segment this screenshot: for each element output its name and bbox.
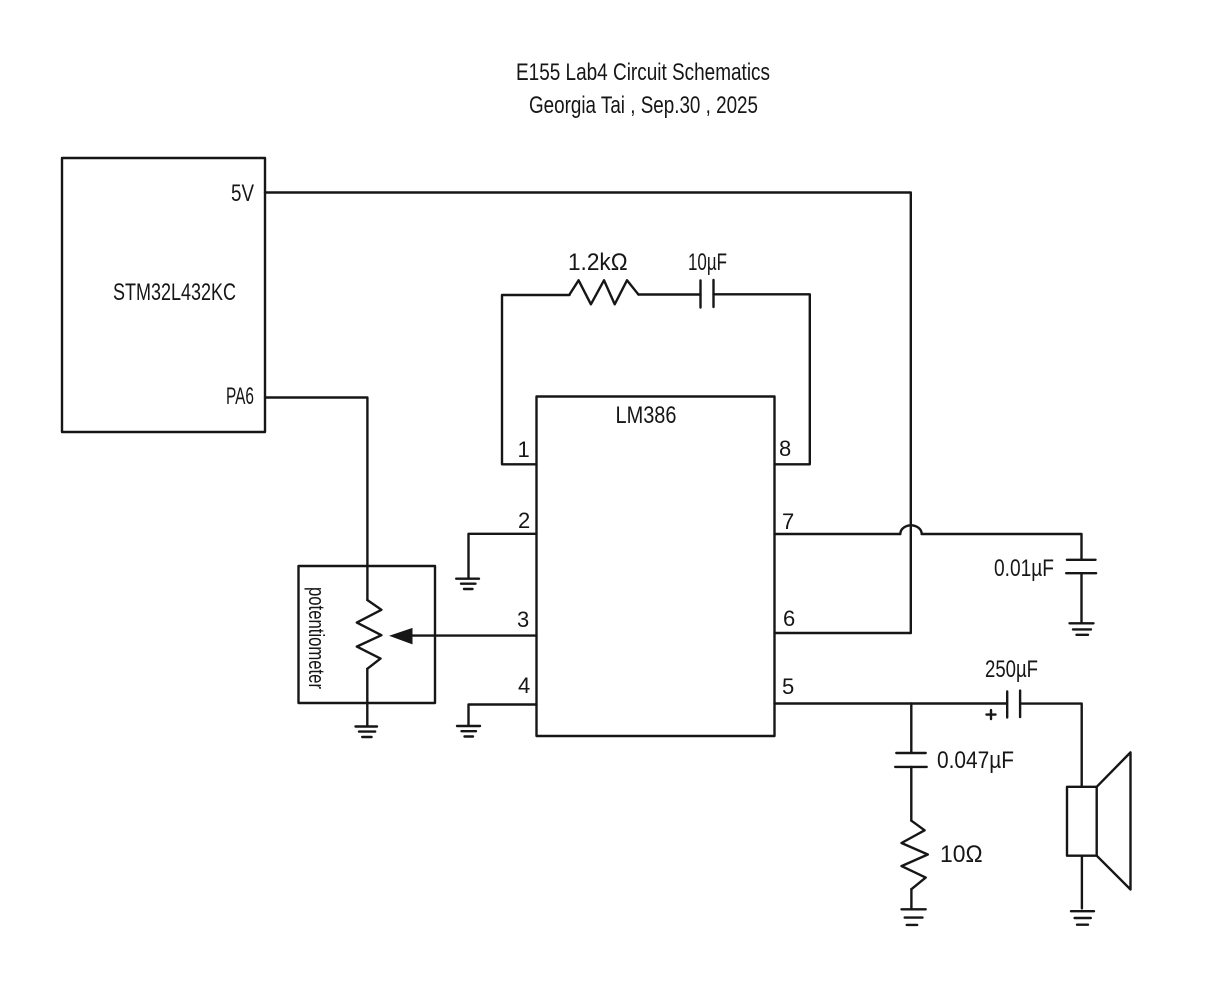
svg-text:250µF: 250µF (985, 656, 1038, 683)
svg-text:E155 Lab4 Circuit Schematics: E155 Lab4 Circuit Schematics (516, 59, 770, 86)
wire capacitor to ground (1080, 573, 1082, 623)
svg-text:4: 4 (518, 673, 530, 698)
svg-text:10Ω: 10Ω (940, 841, 983, 868)
resistor R1 1.2kΩ (570, 280, 639, 304)
capacitor C1 10µF left plate (699, 281, 701, 308)
svg-text:3: 3 (517, 607, 529, 632)
wire pin 6 (775, 632, 911, 634)
svg-text:6: 6 (783, 606, 795, 631)
wire junction down to 0.047µF (910, 704, 912, 753)
wire pin 4 to ground (469, 705, 537, 726)
capacitor C3 0.047µF top plate (896, 752, 925, 754)
wire capacitor to speaker (1020, 704, 1082, 787)
svg-text:7: 7 (782, 509, 794, 534)
wire pin 7 (775, 533, 901, 535)
svg-text:LM386: LM386 (616, 402, 677, 429)
ground pin 2 (456, 579, 479, 589)
wire PA6 to potentiometer (265, 398, 367, 601)
svg-text:1: 1 (518, 437, 530, 462)
svg-text:10µF: 10µF (688, 249, 727, 276)
wire potentiometer to ground (366, 669, 368, 726)
wire hop to 0.01µF capacitor (922, 534, 1082, 560)
capacitor C4 250µF left plate (1006, 692, 1008, 718)
wire resistor to ground (910, 889, 912, 908)
svg-text:PA6: PA6 (226, 383, 254, 410)
ground 10Ω (902, 909, 926, 925)
ground speaker (1071, 911, 1094, 925)
svg-text:0.047µF: 0.047µF (937, 747, 1014, 774)
potentiometer resistor zigzag (357, 600, 382, 669)
wire pin 2 to ground (469, 534, 537, 579)
svg-text:2: 2 (518, 508, 530, 533)
wire pin 5 to 250µF capacitor (775, 702, 1008, 704)
speaker horn (1097, 752, 1131, 889)
wire resistor to capacitor (638, 293, 700, 295)
capacitor C2 0.01µF top plate (1067, 559, 1096, 561)
svg-text:5: 5 (782, 674, 794, 699)
svg-text:5V: 5V (231, 180, 254, 207)
svg-text:STM32L432KC: STM32L432KC (113, 279, 236, 306)
svg-text:1.2kΩ: 1.2kΩ (568, 249, 628, 276)
svg-text:potentiometer: potentiometer (304, 587, 329, 689)
capacitor C2 0.01µF bottom plate (1066, 572, 1096, 574)
svg-text:0.01µF: 0.01µF (994, 555, 1054, 582)
IC U2 STM32L432KC box (62, 158, 265, 432)
resistor R2 10Ω (902, 821, 928, 890)
wire pin 1 to feedback loop top (502, 295, 570, 464)
speaker body (1067, 787, 1097, 856)
wire capacitor to resistor (910, 767, 912, 821)
wire 5V rail from STM32 to vertical drop (265, 193, 911, 634)
ground pin 4 (457, 726, 480, 737)
wire speaker to ground (1081, 856, 1083, 909)
wire capacitor to pin 8 (714, 294, 810, 464)
ground 0.01µF (1070, 623, 1094, 635)
capacitor C3 0.047µF bottom plate (895, 766, 927, 768)
svg-text:Georgia Tai , Sep.30 , 2025: Georgia Tai , Sep.30 , 2025 (529, 92, 758, 119)
wire hop over 5V line (900, 525, 921, 534)
potentiometer box (299, 566, 436, 703)
IC U1 LM386 box (537, 397, 775, 737)
ground potentiometer (356, 727, 378, 738)
wire pin 3 to potentiometer wiper (410, 634, 537, 636)
capacitor C4 250µF right plate (1019, 691, 1021, 718)
capacitor C1 10µF right plate (712, 280, 714, 307)
arrowhead wiper (391, 629, 413, 644)
polarity plus sign (987, 710, 996, 719)
svg-text:8: 8 (779, 436, 791, 461)
